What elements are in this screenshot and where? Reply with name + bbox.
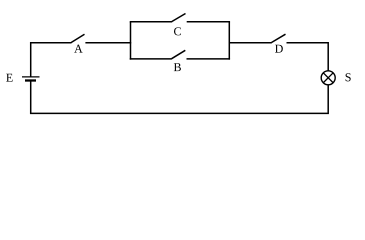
wire from switch D to top-right corner and down to lamp <box>287 43 329 71</box>
switch B blade <box>172 50 186 58</box>
switch A blade <box>71 34 84 42</box>
label D (switch D) <box>275 45 283 53</box>
lamp S cross line 2 <box>323 73 333 83</box>
battery E short thick plate <box>25 79 36 81</box>
label B (switch B) <box>174 63 181 71</box>
label S (lamp) <box>346 73 351 81</box>
wire bottom branch left segment <box>130 58 172 60</box>
node: parallel box left vertical bus <box>130 22 132 60</box>
wire top branch left segment <box>130 21 172 23</box>
wire left-top: from battery up and right to switch A <box>31 43 72 77</box>
switch C blade <box>172 14 186 22</box>
lamp S circle <box>321 71 335 85</box>
node: parallel box right vertical bus <box>228 22 230 60</box>
label C (switch C) <box>174 27 181 35</box>
lamp S cross line 1 <box>323 73 333 83</box>
wire top branch right segment <box>187 21 230 23</box>
battery E long plate <box>22 76 40 78</box>
wire from lamp down to bottom-right corner, bottom return wire, up to battery <box>31 81 329 114</box>
wire bottom branch right segment <box>187 58 231 60</box>
label A (switch A) <box>74 45 82 53</box>
wire from parallel box right node to switch D <box>229 42 271 44</box>
wire from switch A to parallel box left node <box>85 42 131 44</box>
switch D blade <box>272 34 286 42</box>
label E (battery) <box>6 74 12 82</box>
